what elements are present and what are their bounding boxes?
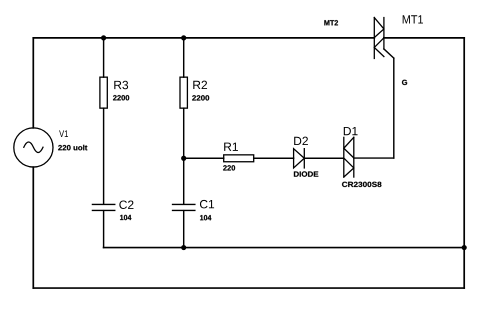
wire bottom rail bbox=[33, 287, 464, 289]
resistor R1 bbox=[224, 155, 254, 162]
label D2 bbox=[294, 137, 308, 145]
label MT1 bbox=[403, 15, 423, 23]
resistor R2 bbox=[180, 77, 187, 108]
node right rail bbox=[462, 245, 467, 250]
capacitor C1 bbox=[173, 203, 195, 205]
wire R2 to node bbox=[183, 108, 185, 158]
wire R1 left lead bbox=[184, 157, 224, 159]
value 220 uolt bbox=[58, 145, 87, 151]
wire MT1 to right rail bbox=[384, 37, 464, 39]
triac top triangle bbox=[374, 18, 384, 38]
wire gate vertical bbox=[393, 58, 395, 158]
diac D1 top triangle bbox=[344, 137, 354, 158]
diac D1 right bar bbox=[353, 137, 355, 177]
voltage source V1 bbox=[14, 128, 53, 167]
pin MT2 bbox=[324, 20, 338, 25]
triac right bar MT1 side bbox=[383, 18, 385, 49]
wire left top V1 to top rail bbox=[32, 38, 34, 128]
wire C1 bottom lead bbox=[183, 211, 185, 248]
label V1 bbox=[59, 130, 68, 137]
capacitor C2 bbox=[92, 203, 114, 205]
diode D2 bbox=[294, 149, 305, 168]
value DIODE bbox=[294, 171, 318, 176]
label R2 bbox=[193, 81, 207, 89]
wire middle rail bbox=[104, 247, 465, 249]
label D1 bbox=[344, 127, 358, 135]
value R2 2200 bbox=[192, 95, 209, 100]
label C1 bbox=[200, 200, 214, 208]
wire R1 to D2 bbox=[254, 157, 294, 159]
node C1 bottom bbox=[181, 245, 186, 250]
wire R2 top lead bbox=[183, 38, 185, 77]
value C2 104 bbox=[120, 215, 131, 220]
node R2 top bbox=[181, 35, 186, 40]
wire top rail bbox=[33, 37, 374, 39]
value R3 2200 bbox=[113, 95, 129, 100]
triac left bar MT2 side bbox=[373, 18, 375, 59]
diac D1 left bar bbox=[343, 137, 345, 177]
value CR2300S8 bbox=[342, 182, 381, 187]
wire node to C1 bbox=[183, 158, 185, 204]
wire right rail bbox=[463, 38, 465, 288]
wire left bottom V1 to bottom rail bbox=[32, 167, 34, 288]
label R1 bbox=[224, 143, 238, 151]
label C2 bbox=[119, 200, 133, 208]
resistor R3 bbox=[100, 77, 107, 108]
value R1 220 bbox=[223, 165, 235, 170]
wire D2 to D1 bbox=[304, 157, 344, 159]
wire R3 top lead bbox=[103, 38, 105, 77]
wire R3 to C2 bbox=[103, 108, 105, 204]
wire C2 bottom lead bbox=[103, 211, 105, 248]
wire D1 to gate corner bbox=[354, 157, 394, 159]
triac bottom triangle bbox=[374, 38, 384, 57]
node R2 R1 bbox=[181, 156, 186, 161]
wire gate diagonal bbox=[384, 49, 394, 58]
node R3 top bbox=[101, 35, 106, 40]
value C1 104 bbox=[200, 215, 211, 220]
pin G bbox=[402, 80, 407, 85]
diac D1 bottom triangle bbox=[344, 158, 354, 177]
label R3 bbox=[114, 81, 128, 89]
